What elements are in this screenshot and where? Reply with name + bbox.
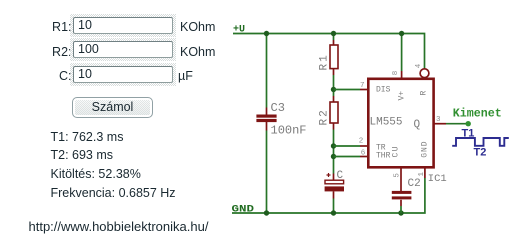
svg-text:7: 7: [360, 82, 365, 90]
label R1 rotated: [319, 53, 331, 70]
net GND rail wire: [232, 178, 425, 213]
svg-text:4: 4: [415, 63, 423, 68]
svg-text:1: 1: [418, 172, 426, 177]
capacitor C3: [257, 108, 277, 131]
resistor R2: [330, 96, 338, 130]
capacitor C1 electrolytic: [325, 173, 344, 199]
svg-text:C: C: [337, 170, 344, 182]
node +U label: [233, 25, 245, 36]
junction GND/C1: [331, 210, 336, 215]
svg-text:V+: V+: [398, 91, 407, 101]
svg-text:LM555: LM555: [370, 117, 403, 129]
svg-text:2: 2: [359, 138, 364, 146]
wire C2 bottom to GND: [400, 206, 402, 213]
IC internal pin name V+ rotated: [398, 91, 407, 101]
svg-text:IC1: IC1: [428, 173, 447, 185]
op-amp-style IC body U1 (LM555): [368, 79, 433, 168]
svg-text:Kimenet: Kimenet: [453, 106, 502, 120]
pin number 1 rotated: [418, 172, 426, 177]
svg-text:T2: T2: [474, 147, 487, 159]
wire C3 bottom to GND: [266, 131, 268, 214]
label C2: [408, 178, 421, 190]
output waveform: [452, 138, 509, 146]
result Frekvencia: [51, 186, 176, 200]
junction GND/C3: [264, 210, 269, 215]
svg-text:5: 5: [394, 173, 402, 178]
IC internal pin name Q: [414, 119, 421, 131]
svg-text:R2: R2: [319, 108, 331, 125]
wire R1 top branch: [333, 34, 335, 41]
wire R2 bottom to C1: [333, 130, 335, 174]
wire Q output to Kimenet: [446, 123, 468, 125]
pin 3 stub Q output: [434, 123, 446, 125]
wire C1 bottom to GND: [333, 199, 335, 214]
IC internal pin name THR: [376, 151, 391, 160]
input C dotted halo: [70, 63, 176, 86]
input R1 dotted halo: [70, 14, 176, 37]
resistor R1: [330, 40, 338, 75]
svg-text:3: 3: [436, 116, 441, 124]
input R1: [73, 17, 173, 34]
value 100nF: [271, 124, 307, 138]
wire R1 to R2: [333, 75, 335, 96]
pin number 8 rotated: [392, 71, 400, 76]
wire C3 top branch: [266, 34, 268, 108]
IC internal pin name R rotated: [420, 91, 429, 96]
pin 6 stub THR: [360, 156, 368, 158]
svg-text:GND: GND: [421, 140, 430, 157]
input C: [73, 66, 173, 83]
svg-text:Q: Q: [414, 119, 421, 131]
unit KOhm: [180, 45, 215, 59]
waveform label T1: [462, 128, 475, 140]
url: [29, 219, 209, 234]
pin number 3: [436, 116, 441, 124]
label C3: [271, 101, 285, 115]
junction THR: [331, 154, 336, 159]
svg-text:DIS: DIS: [376, 86, 391, 95]
svg-text:THR: THR: [376, 151, 391, 160]
svg-text:C3: C3: [271, 101, 285, 115]
label C (C1): [337, 170, 344, 182]
svg-text:R: R: [420, 91, 429, 96]
junction R1/R2/pin7: [331, 87, 336, 92]
svg-text:CU: CU: [391, 145, 400, 158]
pin 1 stub GND: [424, 168, 426, 179]
result T1: [51, 130, 124, 144]
pin number 5 rotated: [394, 173, 402, 178]
svg-text:8: 8: [392, 71, 400, 76]
IC internal pin name CU rotated: [391, 145, 400, 158]
node Kimenet label: [453, 106, 502, 120]
form label R2: [12, 45, 72, 59]
IC internal pin name TR: [376, 143, 386, 152]
pin 4 inversion bubble (reset): [420, 69, 429, 78]
pin 8 stub V+: [401, 71, 403, 79]
pin 2 stub TR: [360, 145, 368, 147]
pin 5 stub CU: [400, 168, 402, 192]
node GND label: [232, 205, 255, 216]
button Szamol: [72, 97, 153, 118]
IC internal pin name DIS: [376, 86, 391, 95]
junction at +U/C3: [264, 31, 269, 36]
junction TR: [331, 143, 336, 148]
svg-text:100nF: 100nF: [271, 124, 307, 138]
input R2 dotted halo: [70, 38, 176, 61]
waveform label T2: [474, 147, 487, 159]
unit uF: [178, 69, 193, 83]
pin number 2: [359, 138, 364, 146]
IC internal pin name GND rotated: [421, 140, 430, 157]
pin number 7: [360, 82, 365, 90]
svg-text:+U: +U: [233, 25, 245, 36]
IC value LM555: [370, 117, 403, 129]
wire pin8 branch: [401, 34, 403, 72]
wire to pin 7: [334, 89, 361, 91]
svg-text:6: 6: [361, 149, 366, 157]
pin number 4 rotated: [415, 63, 423, 68]
junction at +U/R1: [331, 31, 336, 36]
result Kitoltes: [51, 167, 141, 181]
pin 7 stub DIS: [360, 89, 368, 91]
pin number 6: [361, 149, 366, 157]
svg-text:R1: R1: [319, 53, 331, 70]
junction at +U/pin8: [399, 31, 404, 36]
svg-text:GND: GND: [232, 205, 255, 216]
node Kimenet dot: [466, 121, 471, 126]
wire to pin 6: [334, 156, 361, 158]
net +U rail wire: [233, 34, 425, 69]
input R2: [73, 41, 173, 58]
svg-text:C2: C2: [408, 178, 421, 190]
form label C: [12, 69, 72, 83]
result T2: [51, 148, 114, 162]
form label R1: [12, 20, 72, 34]
label R2 rotated: [319, 108, 331, 125]
capacitor C2: [392, 191, 412, 206]
unit KOhm: [180, 20, 215, 34]
wire to pin 2: [334, 145, 361, 147]
junction GND/C2: [398, 210, 403, 215]
label IC1: [428, 173, 447, 185]
